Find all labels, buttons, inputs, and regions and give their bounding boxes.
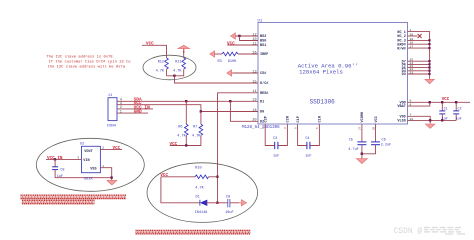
svg-text:J1: J1 bbox=[108, 94, 113, 98]
wire C9 to arrow bbox=[230, 202, 239, 204]
svg-text:BS1: BS1 bbox=[260, 44, 266, 48]
ground NC bus bbox=[425, 79, 434, 84]
svg-text:662K: 662K bbox=[84, 178, 93, 182]
svg-text:13: 13 bbox=[252, 70, 256, 74]
svg-text:VCOMH: VCOMH bbox=[361, 112, 365, 123]
wire SDA long to D1 pin 19 bbox=[118, 100, 259, 102]
wire ERD# bbox=[408, 43, 430, 45]
svg-text:C8: C8 bbox=[60, 169, 64, 173]
junctions on NC bus bbox=[428, 39, 430, 75]
wire R10 to RES# node bbox=[209, 176, 218, 178]
svg-text:C2N: C2N bbox=[287, 116, 291, 122]
svg-text:CSDN @: CSDN @ bbox=[394, 227, 423, 236]
svg-text:4.7K: 4.7K bbox=[177, 134, 186, 138]
junction RES#/C9 bbox=[216, 202, 218, 204]
ground VSS bbox=[425, 124, 435, 128]
resistor R7 bbox=[200, 112, 202, 125]
junction C1 bottom bbox=[441, 119, 443, 121]
wire NC_2 stub bbox=[408, 35, 418, 37]
svg-text:RES#: RES# bbox=[260, 92, 268, 96]
wire VCC down to diode row bbox=[161, 177, 200, 203]
IC U1 SSD1306 body bbox=[258, 23, 408, 125]
ellipse around R11 R12 bbox=[143, 55, 196, 80]
svg-text:128x64 Pixels: 128x64 Pixels bbox=[299, 69, 343, 76]
wire VCC_IN stub bbox=[118, 108, 154, 110]
wire RES# vertical to reset circuit bbox=[218, 93, 259, 203]
wire SCL from J1 bbox=[118, 105, 259, 112]
svg-text:1uF: 1uF bbox=[273, 155, 279, 159]
svg-text:R6: R6 bbox=[178, 126, 182, 130]
svg-text:11: 11 bbox=[252, 42, 256, 46]
resistor R12 bbox=[165, 58, 169, 69]
svg-text:R/W#: R/W# bbox=[397, 46, 405, 51]
wire D7 bbox=[408, 60, 430, 62]
U1 bottom rotated pin names bbox=[265, 112, 379, 123]
capacitor C4 loop C1P/C1N bbox=[298, 124, 307, 146]
svg-text:GND: GND bbox=[134, 109, 142, 115]
svg-text:6: 6 bbox=[294, 127, 297, 129]
junction RES#/R10 bbox=[216, 176, 218, 178]
wire IREF left bbox=[214, 53, 222, 55]
junction R6 rail bbox=[185, 144, 187, 146]
svg-text:U2: U2 bbox=[80, 143, 84, 147]
svg-text:12: 12 bbox=[252, 33, 256, 37]
svg-text:20: 20 bbox=[252, 119, 256, 123]
svg-text:IREF: IREF bbox=[260, 53, 268, 57]
wire VSS down bbox=[408, 116, 431, 123]
wire node to C9 bbox=[218, 202, 228, 204]
wire D4 bbox=[408, 70, 430, 72]
junction SCL/R7 bbox=[200, 110, 202, 112]
svg-text:D0: D0 bbox=[260, 111, 264, 115]
svg-text:19: 19 bbox=[252, 99, 256, 103]
capacitor C6 at VCC pin bbox=[375, 124, 377, 142]
power arrow at BS2/BS0 bbox=[231, 33, 236, 39]
junction VSS ground bbox=[110, 176, 112, 178]
wire C8 bottom to ground rail bbox=[55, 170, 112, 178]
svg-text:26: 26 bbox=[252, 51, 256, 55]
junction VDD bbox=[429, 101, 431, 103]
wire BS2 pin 12 bbox=[235, 35, 258, 37]
capacitor C3 loop C2P/C2N bbox=[265, 124, 275, 146]
resistor R10 bbox=[195, 175, 209, 179]
svg-text:C3: C3 bbox=[273, 137, 277, 141]
wire junction to D/C# pin 15 bbox=[175, 76, 259, 83]
svg-text:5: 5 bbox=[316, 127, 319, 129]
svg-text:C1P: C1P bbox=[297, 116, 301, 122]
svg-text:SSD1306: SSD1306 bbox=[310, 99, 336, 106]
svg-text:U1: U1 bbox=[258, 20, 263, 24]
svg-text:910K: 910K bbox=[228, 60, 237, 64]
wire diode to node bbox=[206, 202, 218, 204]
svg-text:4.7K: 4.7K bbox=[156, 69, 165, 73]
svg-text:NC_1: NC_1 bbox=[397, 31, 405, 35]
svg-text:3: 3 bbox=[284, 127, 287, 129]
U1 right pin names bbox=[397, 31, 405, 124]
svg-text:1uF: 1uF bbox=[305, 155, 311, 159]
junction SDA/R6 bbox=[185, 100, 187, 102]
svg-text:28: 28 bbox=[372, 126, 375, 130]
svg-text:1uF: 1uF bbox=[456, 117, 462, 121]
svg-text:18: 18 bbox=[252, 109, 256, 113]
ground C5/C6 bbox=[356, 159, 367, 164]
svg-text:D/C#: D/C# bbox=[260, 81, 268, 86]
junction C8 top bbox=[54, 158, 56, 160]
wire NC_1 bbox=[408, 32, 430, 80]
U1 left pin names bbox=[260, 35, 268, 124]
svg-text:VSS: VSS bbox=[90, 168, 96, 172]
junction BS2 bbox=[238, 35, 240, 37]
wire BS1 pin 11 bbox=[227, 44, 258, 46]
wire VCC_IN to VIN pin 3 bbox=[46, 158, 82, 160]
svg-text:4.7K: 4.7K bbox=[173, 69, 182, 73]
wire D6 bbox=[408, 63, 430, 65]
svg-text:VCC: VCC bbox=[146, 42, 154, 47]
svg-text:VCC: VCC bbox=[227, 41, 235, 46]
svg-text:CS#: CS# bbox=[260, 72, 266, 76]
ground U2 bbox=[107, 180, 117, 185]
svg-text:the I2C slave address will be: the I2C slave address will be 0x7a bbox=[48, 64, 126, 69]
svg-text:If the customer ties D/C# (pin: If the customer ties D/C# (pin 13 to bbox=[49, 59, 132, 64]
wire VLSS to cap bottoms bbox=[408, 119, 457, 121]
capacitor C9 bbox=[227, 199, 229, 207]
wire pullup rail to VCC bbox=[186, 135, 201, 145]
wire GND stub bbox=[118, 112, 149, 114]
svg-text:The I2C slave address is 0x78.: The I2C slave address is 0x78. bbox=[47, 54, 115, 59]
annotation red text top-left bbox=[47, 54, 132, 69]
svg-text:VBAT: VBAT bbox=[397, 105, 405, 109]
resistor R3 bbox=[222, 52, 238, 56]
svg-text:R10: R10 bbox=[195, 167, 201, 171]
U2 pin numbers bbox=[77, 146, 104, 168]
svg-text:D3: D3 bbox=[402, 73, 406, 77]
svg-text:VCC: VCC bbox=[375, 116, 379, 122]
wire VBAT tie bbox=[408, 102, 430, 106]
capacitor C2 bbox=[455, 102, 457, 111]
svg-text:4.7K: 4.7K bbox=[192, 134, 201, 138]
wire R3 to IREF pin 26 bbox=[238, 53, 258, 55]
svg-text:R11: R11 bbox=[175, 60, 181, 64]
capacitor C5 at VCOMH bbox=[361, 124, 363, 142]
svg-text:VCC: VCC bbox=[170, 142, 178, 147]
power arrow above R11 bbox=[178, 45, 190, 53]
svg-text:VCC: VCC bbox=[160, 173, 168, 178]
svg-text:C5: C5 bbox=[349, 139, 353, 143]
ellipse reset circuit bbox=[147, 163, 258, 223]
svg-text:R7: R7 bbox=[193, 126, 197, 130]
junction C1 top bbox=[441, 101, 443, 103]
wire NC_3 bbox=[408, 39, 430, 41]
power arrow at IREF bbox=[210, 51, 215, 57]
diode D1 IN4148 bbox=[199, 200, 201, 206]
svg-text:C6: C6 bbox=[382, 139, 386, 143]
svg-text:C1: C1 bbox=[444, 108, 448, 112]
svg-text:VCC: VCC bbox=[113, 146, 121, 151]
svg-text:IN4148: IN4148 bbox=[195, 211, 208, 215]
junction SDA/D1-D2 tie bbox=[229, 100, 231, 102]
svg-text:D1: D1 bbox=[196, 195, 200, 199]
svg-text:10uF: 10uF bbox=[225, 211, 233, 215]
svg-text:C2: C2 bbox=[458, 108, 462, 112]
svg-text:VIN: VIN bbox=[83, 159, 89, 163]
wire R/W# bbox=[408, 47, 430, 49]
connector J1 bbox=[108, 98, 117, 121]
wire CS# pin 13 bbox=[234, 72, 259, 74]
wire D5 bbox=[408, 67, 430, 69]
svg-text:VOUT: VOUT bbox=[84, 150, 92, 154]
U1 bottom rotated pin numbers bbox=[262, 126, 375, 130]
wire R11 bottom rail bbox=[167, 69, 184, 76]
annotation chinese text bottom reset (simulated strokes) bbox=[136, 230, 251, 233]
wire BS2 to BS0 bbox=[240, 36, 259, 41]
resistor R11 bbox=[183, 51, 185, 58]
svg-text:R3: R3 bbox=[218, 60, 222, 64]
wire VCC to R10 bbox=[161, 176, 195, 178]
svg-text:D1: D1 bbox=[260, 101, 264, 105]
regulator U2 bbox=[82, 146, 101, 172]
J1 pin numbers bbox=[120, 98, 122, 114]
svg-text:C2P: C2P bbox=[265, 116, 269, 122]
wire VSS pin 1 down bbox=[100, 168, 111, 181]
svg-text:R12: R12 bbox=[158, 60, 164, 64]
svg-text:4.7K: 4.7K bbox=[195, 186, 204, 190]
wire VCC to R12 bbox=[142, 45, 167, 57]
U1 left pin numbers bbox=[252, 33, 256, 122]
svg-text:27: 27 bbox=[359, 126, 362, 130]
wire VDD to VCC bbox=[408, 101, 471, 103]
no-connect X on NC_2 bbox=[418, 34, 422, 38]
U1 right pin numbers bbox=[410, 28, 414, 121]
svg-text:15: 15 bbox=[252, 80, 256, 84]
svg-text:10: 10 bbox=[252, 38, 256, 42]
junction C2 top bbox=[455, 101, 457, 103]
wire D1 to D2 pin 20 bbox=[230, 101, 258, 121]
wire D3 bbox=[408, 73, 430, 75]
junction C5/C6 ground bbox=[361, 153, 363, 155]
svg-text:14: 14 bbox=[252, 90, 256, 94]
svg-text:VLSS: VLSS bbox=[397, 120, 405, 124]
capacitor C8 bbox=[54, 159, 56, 166]
svg-text:BS0: BS0 bbox=[260, 40, 266, 44]
svg-text:C9: C9 bbox=[226, 195, 230, 199]
resistor R6 bbox=[185, 101, 187, 124]
svg-text:C4: C4 bbox=[305, 137, 309, 141]
power arrow right of C9 bbox=[239, 202, 241, 204]
power arrow at CS# bbox=[227, 70, 234, 76]
capacitor C1 bbox=[441, 102, 443, 111]
svg-text:NC_2: NC_2 bbox=[397, 35, 405, 39]
svg-text:CON4: CON4 bbox=[107, 124, 117, 128]
svg-text:2.2uF: 2.2uF bbox=[381, 143, 392, 147]
junction VLSS bus bbox=[429, 119, 431, 121]
wire VOUT pin 2 to VCC bbox=[100, 148, 122, 150]
annotation chinese text under U2 (simulated strokes) bbox=[21, 195, 127, 204]
svg-text:C1N: C1N bbox=[319, 116, 323, 122]
svg-text:BS2: BS2 bbox=[260, 35, 266, 39]
ellipse U2 regulator bbox=[36, 138, 144, 191]
svg-text:4.7uF: 4.7uF bbox=[348, 148, 359, 152]
svg-text:1uF: 1uF bbox=[57, 175, 63, 179]
wire R12 bottom bbox=[166, 69, 168, 76]
junction R12/R11 bbox=[173, 75, 175, 77]
